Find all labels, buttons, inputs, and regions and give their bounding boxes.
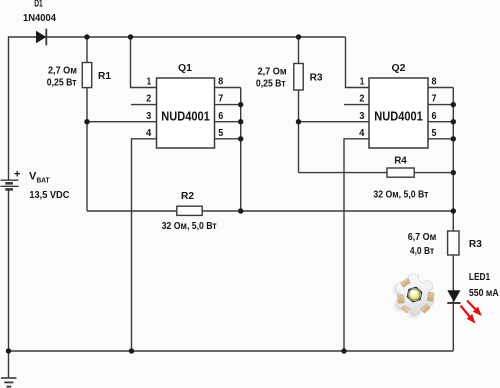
svg-text:1: 1 xyxy=(360,76,365,88)
svg-text:8: 8 xyxy=(432,76,437,88)
LED1 star photo xyxy=(394,274,434,318)
svg-text:7: 7 xyxy=(218,93,223,105)
svg-text:2,7 Ом: 2,7 Ом xyxy=(258,66,287,78)
node Q2 pin3 junction xyxy=(296,119,301,124)
svg-text:D1: D1 xyxy=(34,0,43,9)
ground xyxy=(1,378,17,387)
wire Q1 pin8 xyxy=(215,87,241,89)
resistor R3 (2,7 Ом) xyxy=(294,64,303,91)
node top R3a xyxy=(296,34,301,39)
svg-text:7: 7 xyxy=(432,93,437,105)
svg-text:NUD4001: NUD4001 xyxy=(374,108,423,123)
op-amp U1 : IC Q1 NUD4001 xyxy=(157,78,215,148)
resistor R3 (6,7 Ом) xyxy=(448,231,459,255)
wire Q1 pin1 branch xyxy=(131,37,157,88)
svg-text:R3: R3 xyxy=(469,238,482,250)
svg-text:3: 3 xyxy=(359,110,364,122)
svg-text:2: 2 xyxy=(146,93,151,105)
svg-text:32 Ом, 5,0 Вт: 32 Ом, 5,0 Вт xyxy=(373,188,428,200)
wire top rail xyxy=(9,36,346,38)
svg-text:R4: R4 xyxy=(394,155,407,167)
svg-text:5: 5 xyxy=(432,127,437,139)
svg-text:1N4004: 1N4004 xyxy=(23,12,56,24)
svg-text:8: 8 xyxy=(218,76,223,88)
svg-text:LED1: LED1 xyxy=(469,271,490,283)
svg-text:4,0 Вт: 4,0 Вт xyxy=(410,245,434,257)
svg-text:32 Ом, 5,0 Вт: 32 Ом, 5,0 Вт xyxy=(162,220,217,232)
wire R3a branch xyxy=(298,37,300,64)
wire R4 row xyxy=(299,172,454,174)
node top R1 xyxy=(84,34,89,39)
svg-text:550 мА: 550 мА xyxy=(469,287,499,299)
wire R2 row xyxy=(87,210,453,212)
wire Q2 pin5 xyxy=(428,138,453,140)
node Q2 pin7 xyxy=(451,102,456,107)
wire Q2 pin4 branch xyxy=(344,139,369,351)
svg-text:R2: R2 xyxy=(181,190,194,202)
wire Q1 pin4 branch xyxy=(132,139,157,351)
svg-text:2,7 Ом: 2,7 Ом xyxy=(48,65,77,77)
node bottom Q2 pin4 xyxy=(341,348,346,353)
wire R1 branch xyxy=(86,37,88,63)
wire Q2 pin2 stub xyxy=(344,104,369,106)
svg-text:+: + xyxy=(14,168,20,180)
svg-text:13,5 VDC: 13,5 VDC xyxy=(29,189,69,201)
svg-text:Q2: Q2 xyxy=(392,62,406,74)
node bottom Q1 pin4 xyxy=(129,348,134,353)
node top Q1pin1 xyxy=(128,34,133,39)
wire Q1 output vertical xyxy=(240,88,242,212)
node Q1 pin6 xyxy=(238,119,243,124)
node Q2 pin5 xyxy=(451,136,456,141)
diode D1 xyxy=(36,29,46,46)
wire Q2 pin1 branch xyxy=(346,37,370,88)
svg-text:6,7 Ом: 6,7 Ом xyxy=(408,231,437,243)
svg-text:R1: R1 xyxy=(98,70,111,82)
battery V_BAT xyxy=(1,180,19,189)
wire Q2 pin7 xyxy=(428,104,453,106)
wire Q1 pin5 xyxy=(215,138,241,140)
wire bottom rail xyxy=(9,350,454,352)
svg-text:4: 4 xyxy=(359,127,364,139)
wire LED column vertical xyxy=(452,88,454,352)
svg-text:R3: R3 xyxy=(310,72,323,84)
node Q1 pin7 xyxy=(238,102,243,107)
resistor R2 xyxy=(177,206,202,215)
LED light arrow 2 xyxy=(467,301,482,317)
svg-text:5: 5 xyxy=(218,127,223,139)
wire battery left vertical xyxy=(8,36,10,180)
wire ground stub xyxy=(8,351,10,378)
svg-text:2: 2 xyxy=(359,93,364,105)
wire Q2 pin6 xyxy=(428,121,453,123)
wire Q2 pin8 xyxy=(428,87,453,89)
svg-text:0,25 Вт: 0,25 Вт xyxy=(256,77,286,89)
node Q1 pin3 junction xyxy=(84,119,89,124)
node Q1 out on R2 row xyxy=(238,208,243,213)
resistor R4 xyxy=(387,168,414,177)
wire Q2 pin3 xyxy=(299,121,370,123)
svg-text:NUD4001: NUD4001 xyxy=(161,108,210,123)
svg-text:0,25 Вт: 0,25 Вт xyxy=(47,77,77,89)
svg-text:6: 6 xyxy=(218,110,223,122)
svg-text:3: 3 xyxy=(146,110,151,122)
node R4 right xyxy=(451,170,456,175)
node Q1 pin5 xyxy=(238,136,243,141)
node Q2 pin6 xyxy=(451,119,456,124)
resistor R1 xyxy=(82,63,91,88)
node R2 row right xyxy=(451,208,456,213)
LED LED1 symbol xyxy=(447,290,460,303)
svg-text:1: 1 xyxy=(147,76,152,88)
op-amp U2 : IC Q2 NUD4001 xyxy=(369,78,428,148)
wire Q1 pin3 xyxy=(87,121,157,123)
svg-text:Q1: Q1 xyxy=(178,62,192,74)
svg-text:6: 6 xyxy=(432,110,437,122)
node bottom battery xyxy=(6,348,11,353)
LED light arrow 1 xyxy=(461,306,476,324)
svg-text:4: 4 xyxy=(146,127,151,139)
wire Q1 pin6 xyxy=(215,121,241,123)
svg-text:BAT: BAT xyxy=(37,176,50,185)
wire Q1 pin7 xyxy=(215,104,241,106)
wire Q1 pin2 stub xyxy=(131,104,157,106)
